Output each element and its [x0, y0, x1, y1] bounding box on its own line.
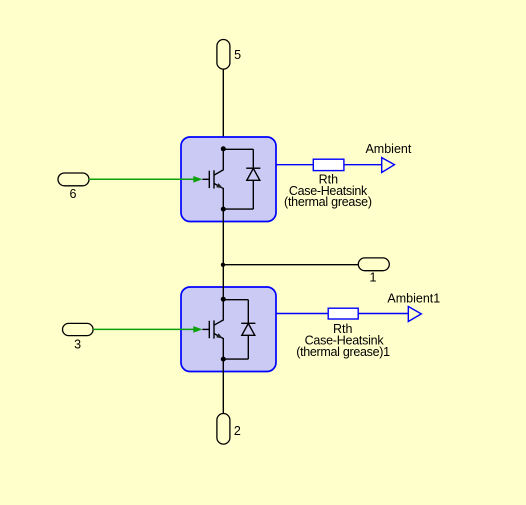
node U2 collector	[221, 297, 226, 302]
resistor Rth2	[328, 308, 358, 319]
node U2 emitter	[221, 357, 226, 362]
port 3	[63, 323, 94, 351]
port 1	[358, 258, 389, 285]
label Case-Heatsink (thermal grease)1	[296, 334, 390, 359]
svg-text:5: 5	[234, 48, 241, 62]
diode D2	[241, 300, 255, 359]
svg-text:Ambient1: Ambient1	[387, 292, 440, 306]
arrowhead gate U2	[193, 326, 202, 333]
svg-text:2: 2	[234, 424, 241, 438]
wire U2 emitter to D2	[223, 358, 248, 360]
svg-text:1: 1	[370, 271, 377, 285]
wire U1 case to Rth1	[277, 164, 314, 166]
svg-text:6: 6	[70, 187, 77, 201]
wire U2 collector to D2	[223, 299, 248, 301]
svg-text:(thermal grease)1: (thermal grease)1	[296, 345, 390, 359]
svg-text:Ambient: Ambient	[365, 142, 411, 156]
wire U2 case to Rth2	[277, 313, 329, 315]
wire Rth2 to Ambient1	[358, 313, 408, 315]
output port Ambient1	[408, 307, 421, 322]
resistor Rth1	[313, 159, 344, 170]
wire Rth1 to Ambient	[344, 164, 382, 166]
svg-text:(thermal grease): (thermal grease)	[284, 195, 372, 209]
transistor Q1	[202, 149, 223, 209]
IGBT module U2	[181, 287, 276, 372]
port 2	[217, 414, 241, 445]
diode D1	[246, 149, 260, 209]
wire U1 collector to D1	[223, 148, 253, 150]
wire U2 emitter to port 2	[222, 359, 224, 413]
port 5	[217, 40, 241, 70]
node U1 emitter	[221, 207, 226, 212]
wire port5 to U1	[222, 69, 224, 149]
output port Ambient	[382, 158, 395, 173]
wire gate U1 (signal)	[89, 178, 196, 180]
IGBT module U1	[181, 137, 276, 222]
node U1 collector	[221, 146, 226, 151]
wire junction to port 1	[223, 264, 358, 266]
wire U1 emitter to U2 collector	[222, 209, 224, 299]
label Case-Heatsink (thermal grease)	[284, 184, 372, 209]
node midpoint junction	[221, 263, 225, 267]
port 6	[58, 173, 89, 201]
wire gate U2 (signal)	[93, 328, 196, 330]
arrowhead gate U1	[193, 176, 202, 183]
transistor Q2	[202, 299, 223, 359]
svg-text:3: 3	[74, 338, 81, 352]
wire U1 emitter to D1	[223, 208, 253, 210]
